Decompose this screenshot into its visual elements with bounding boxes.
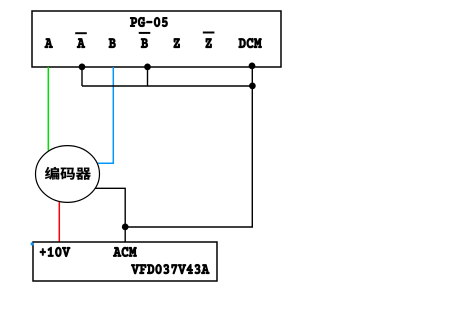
terminal B-bar (139, 32, 150, 48)
junction at B-bar (144, 64, 150, 70)
label VFD037V43A (131, 264, 209, 274)
terminal ACM (113, 247, 136, 257)
wire +10V (red) encoder supply (58, 202, 60, 243)
junction bus/DCM (249, 83, 255, 89)
corner handle (31, 243, 34, 246)
terminal Z-bar (203, 32, 214, 48)
encoder circle (36, 146, 100, 203)
terminal DCM (239, 38, 262, 48)
terminal Z (174, 38, 180, 47)
wire bus A-bar/B-bar to DCM (82, 85, 252, 87)
label PG-05 (130, 17, 167, 27)
junction at ACM drop (122, 224, 128, 230)
encoder label 编码器 (45, 167, 91, 180)
terminal A (45, 38, 53, 47)
junction at DCM (249, 63, 255, 69)
junction at A-bar (79, 64, 85, 70)
VFD drive box (33, 242, 217, 281)
PG-05 encoder card box (32, 11, 281, 67)
wire encoder common to ACM (96, 188, 126, 242)
wire B-bar drop (147, 67, 149, 86)
terminal B (109, 38, 116, 47)
wire A (green) from PG-05 A to encoder (47, 67, 49, 151)
terminal +10V (40, 247, 70, 257)
wire DCM down and across to ACM (125, 67, 252, 227)
wire B (blue) from PG-05 B to encoder (97, 67, 113, 163)
terminal A-bar (76, 33, 87, 48)
wire A-bar drop (81, 67, 83, 86)
